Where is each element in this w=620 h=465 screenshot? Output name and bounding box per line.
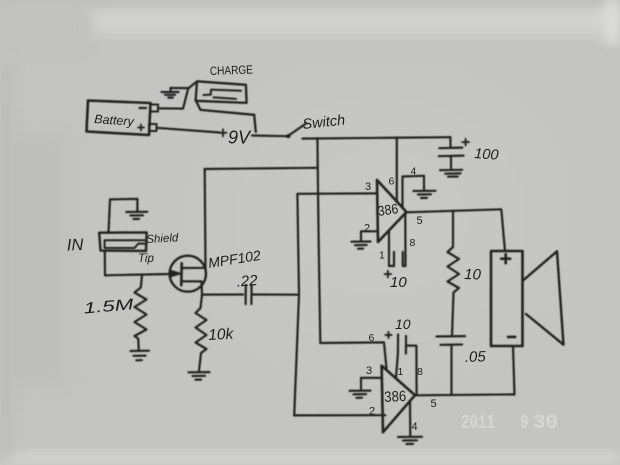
JFET Q1 MPF102 circle xyxy=(170,256,206,292)
wire U2 pin2 input xyxy=(294,414,385,416)
capacitor C1 100uF xyxy=(439,137,464,169)
switch S1 contact xyxy=(288,135,290,137)
op-amp U2 386 xyxy=(382,366,415,433)
wire U2 pin4 to ground xyxy=(409,401,411,436)
wire U2 pin3 to ground xyxy=(361,378,382,390)
svg-text:4: 4 xyxy=(411,166,417,178)
svg-text:100: 100 xyxy=(474,146,499,164)
ground (U2 pin3) xyxy=(350,391,371,398)
resistor R2 10 ohm xyxy=(448,211,460,336)
Q1 source lead xyxy=(182,281,202,294)
ground (U2 pin4) xyxy=(398,437,422,444)
svg-text:5: 5 xyxy=(417,215,423,227)
wire U2 output to speaker xyxy=(415,393,515,396)
wire battery plus to +9V xyxy=(157,128,220,133)
resistor R1 1.5M xyxy=(135,275,147,350)
charge jack J2 sleeve xyxy=(196,101,256,132)
battery B1 xyxy=(87,101,151,136)
C3 plates xyxy=(246,285,252,304)
wire U1 pin4 to ground xyxy=(403,176,425,208)
C3 right wire xyxy=(252,293,299,295)
wire ground to charge jack xyxy=(171,82,196,88)
wire U1 output pin5 xyxy=(407,209,505,251)
svg-text:10: 10 xyxy=(395,316,411,332)
supply rail after switch xyxy=(303,137,451,138)
speaker plus mark xyxy=(501,254,510,263)
speaker horn xyxy=(523,251,564,344)
wire U1 pin2 to ground xyxy=(361,231,377,240)
svg-text:9: 9 xyxy=(521,412,529,435)
ground (C1) xyxy=(440,170,462,177)
wire speaker minus down xyxy=(513,346,515,395)
ground (R3) xyxy=(189,372,210,380)
svg-text:30: 30 xyxy=(533,412,558,435)
Q1 drain lead xyxy=(182,169,206,268)
op-amp U1 386 xyxy=(377,180,407,242)
wire C4 to U2 pin8 xyxy=(406,346,417,395)
speaker LS1 body xyxy=(491,251,523,346)
svg-text:386: 386 xyxy=(377,200,400,219)
resistor R3 10k xyxy=(196,295,207,371)
capacitor C4 10uF plates xyxy=(398,335,406,354)
svg-text:CHARGE: CHARGE xyxy=(210,63,253,78)
+9V plus mark xyxy=(220,129,227,136)
svg-text:3: 3 xyxy=(365,181,371,193)
ground (charge) xyxy=(162,88,179,98)
svg-text:Tip: Tip xyxy=(138,253,154,265)
ground (J1) xyxy=(126,212,147,219)
C2 plus mark xyxy=(385,271,391,277)
capacitor C2 10uF wire pin8 xyxy=(403,215,406,267)
svg-text:Switch: Switch xyxy=(302,113,346,133)
svg-text:.05: .05 xyxy=(465,348,487,366)
supply rail down to U2 pin6 xyxy=(317,138,320,343)
input rail (pin3 to U2 pin2) xyxy=(294,194,299,415)
svg-text:5: 5 xyxy=(431,398,437,410)
speaker minus mark xyxy=(508,336,515,339)
C1 plus mark xyxy=(462,139,469,145)
svg-text:4: 4 xyxy=(412,421,418,433)
svg-text:6: 6 xyxy=(369,332,375,344)
wire U1 pin6 drop xyxy=(396,137,398,202)
svg-text:MPF102: MPF102 xyxy=(207,247,262,271)
J1 plug profile xyxy=(105,240,146,248)
wire C4 to U2 pin1 xyxy=(396,354,398,378)
input jack J1 body xyxy=(99,232,147,251)
charge jack contacts xyxy=(204,90,242,99)
charge jack J2 body xyxy=(196,81,247,103)
battery plus terminal xyxy=(149,124,157,131)
svg-text:Shield: Shield xyxy=(146,232,179,246)
svg-text:2011: 2011 xyxy=(461,412,495,435)
battery minus mark xyxy=(140,107,147,109)
battery minus terminal xyxy=(151,105,159,112)
svg-text:8: 8 xyxy=(410,237,416,249)
wire 9V to switch xyxy=(252,134,288,137)
battery plus mark xyxy=(138,125,144,131)
svg-text:.22: .22 xyxy=(236,272,259,290)
svg-text:IN: IN xyxy=(67,236,84,255)
svg-text:10k: 10k xyxy=(208,326,235,344)
svg-text:10: 10 xyxy=(390,274,407,291)
switch S1 lever xyxy=(288,124,307,138)
svg-text:1: 1 xyxy=(398,366,404,378)
ground (R1) xyxy=(131,351,150,361)
wire U1 pin1 xyxy=(389,231,394,267)
svg-text:8: 8 xyxy=(417,366,423,378)
svg-text:10: 10 xyxy=(464,266,482,284)
svg-text:9V: 9V xyxy=(228,128,252,148)
ground (U1 pin4) xyxy=(414,191,436,198)
svg-text:2: 2 xyxy=(364,223,370,235)
ground (U1 pin2) xyxy=(352,242,371,249)
svg-text:1: 1 xyxy=(379,250,385,262)
capacitor C3 .22 wire xyxy=(202,293,243,295)
wire U2 pin6 horizontal xyxy=(320,342,386,368)
wire drain to supply rail xyxy=(205,168,318,169)
svg-text:6: 6 xyxy=(389,176,395,188)
wire battery minus to ground node xyxy=(158,88,188,108)
svg-text:3: 3 xyxy=(366,365,372,377)
capacitor C5 .05 xyxy=(437,336,466,394)
wire U1 pin3 input xyxy=(297,192,376,195)
Q1 gate wire xyxy=(105,274,179,275)
Q1 channel bar xyxy=(180,263,183,285)
Q1 gate arrow xyxy=(170,270,181,277)
date stamp xyxy=(461,412,558,435)
photo background shading xyxy=(0,0,620,6)
C4 plus mark xyxy=(386,332,392,338)
wire J1 tip down to gate xyxy=(104,251,106,275)
wire J1 shield up to ground xyxy=(109,199,138,233)
svg-text:386: 386 xyxy=(384,388,407,406)
svg-text:2: 2 xyxy=(369,406,375,418)
svg-text:1.5M: 1.5M xyxy=(83,296,134,317)
svg-text:Battery: Battery xyxy=(94,112,135,129)
